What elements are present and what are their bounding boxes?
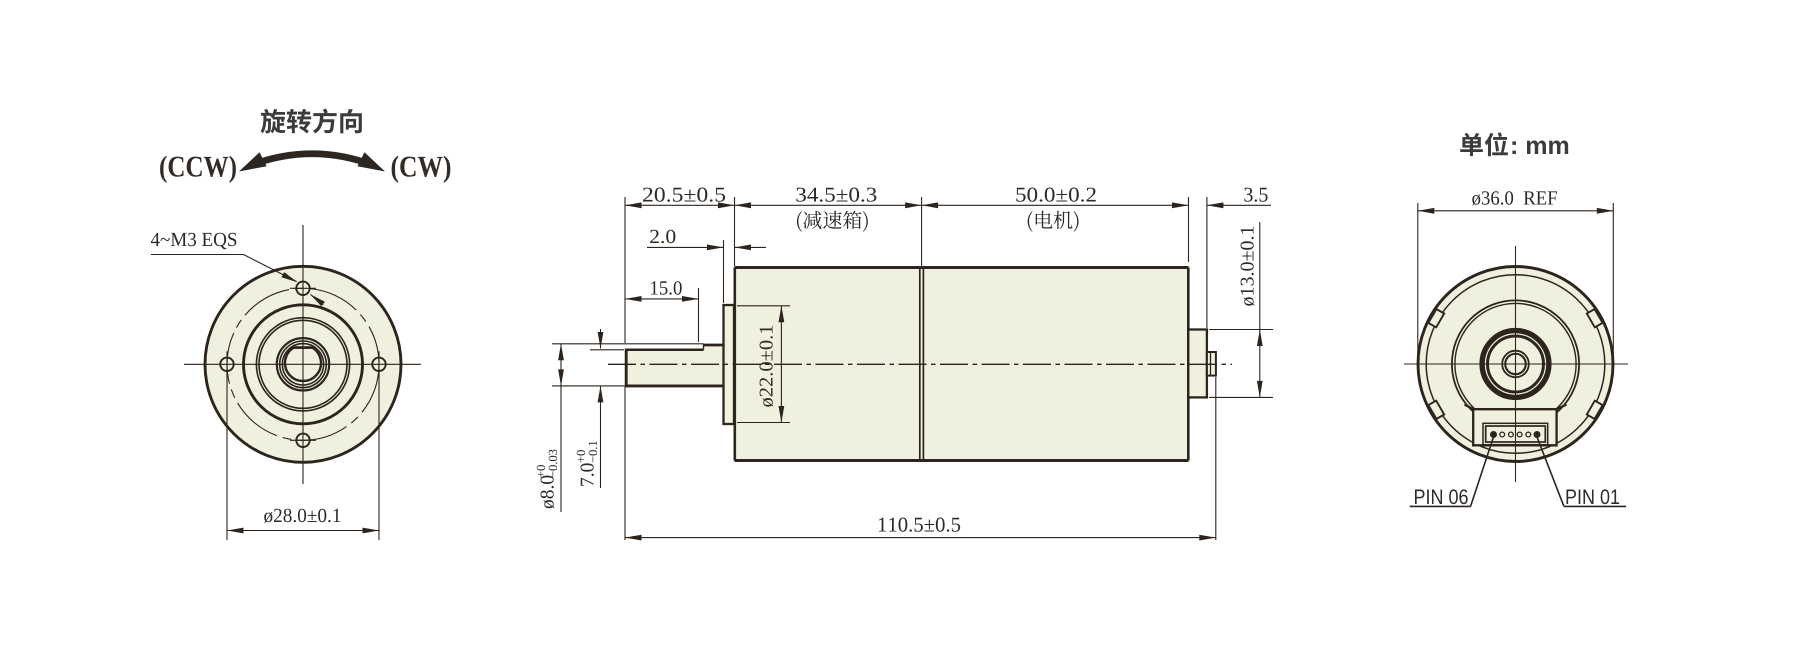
label (CW) <box>392 156 451 183</box>
front boss plate <box>724 305 735 424</box>
dim ø28 label <box>264 509 340 523</box>
shaft bearing ring 2 <box>280 341 327 388</box>
gearbox/motor split lines <box>919 268 921 461</box>
shaft bearing ring 1 <box>277 338 329 390</box>
dim 110.5 line <box>625 537 1216 539</box>
header 单位: mm <box>1460 132 1508 156</box>
curved double arrow CCW/CW <box>250 154 374 166</box>
dim 110.5 right extension <box>1215 377 1217 540</box>
title 旋转方向 (rotation direction) <box>261 109 362 134</box>
leader line to screw hole <box>151 254 244 256</box>
connector shroud inner rect <box>1486 426 1546 442</box>
shaft bearing ring 3 <box>282 344 323 385</box>
dim ø8 label (rotated, with tolerance) <box>537 450 557 509</box>
extension line gearbox/motor split <box>921 197 923 266</box>
label PIN 06 <box>1415 489 1468 504</box>
crimp tab at 330 deg <box>1587 401 1603 419</box>
connector pin <box>1526 432 1531 437</box>
dim 110.5 label <box>879 518 960 532</box>
shaft top silhouette + ø8 top extension line <box>552 343 704 345</box>
bolt circle centerline arc <box>227 288 379 440</box>
shaft D-flat edge line <box>625 349 703 352</box>
leader line PIN 06 <box>1471 438 1494 507</box>
middle view centerline <box>608 363 1232 365</box>
bearing ring small <box>1504 352 1527 375</box>
extension line body front (x=734.5) <box>734 197 736 266</box>
dim 15.0 label <box>651 281 682 295</box>
connector pin 6 (filled) <box>1491 432 1496 437</box>
dim ø13 line <box>1259 222 1261 397</box>
connector shroud outer rect <box>1483 423 1548 444</box>
dim ø22 line <box>780 306 782 423</box>
dim 2.0 extension line <box>723 240 725 303</box>
dim ø36 label <box>1472 191 1557 205</box>
motor housing circle outer <box>1452 300 1579 427</box>
dim 2.0 line and arrows <box>647 246 724 248</box>
connector pin <box>1509 432 1514 437</box>
rear rim inner circle <box>1426 275 1605 454</box>
left view horizontal centerline <box>184 363 421 365</box>
dim 3.5 arrows <box>1207 204 1271 206</box>
dim ø13 extension lines <box>1209 329 1273 331</box>
dim ø13 label (rotated) <box>1241 227 1255 306</box>
shaft D-flat edge <box>294 346 313 349</box>
dim ø8 line <box>560 344 562 512</box>
bearing ring outer <box>1484 333 1547 396</box>
dim 50.0 line <box>922 204 1189 206</box>
screw hole bottom crosshair <box>290 439 316 441</box>
crimp tab at 210 deg <box>1428 401 1444 419</box>
dim 15.0 extension line (flat end) <box>698 288 700 342</box>
extension line body rear <box>1188 197 1190 262</box>
boss ring outer <box>256 318 349 411</box>
shaft end cap <box>625 349 628 388</box>
dim ø28 left extension line <box>226 374 228 540</box>
dim 34.5 label <box>796 188 876 202</box>
dim 7.0 line <box>600 329 602 349</box>
rear boss <box>1188 330 1207 398</box>
dim 20.5 line <box>625 204 735 206</box>
right view: motor rear disc <box>1418 267 1613 462</box>
dim 7.0 flat extension <box>590 349 624 351</box>
dim ø36 line <box>1418 210 1614 212</box>
dim 3.5 label <box>1244 188 1267 202</box>
boss ring inner <box>259 320 347 408</box>
dim 7.0 label (rotated, with tolerance) <box>577 441 597 486</box>
M3 screw hole bottom <box>296 434 309 447</box>
shaft bottom edge + ø8 bottom extension <box>552 385 625 387</box>
screw hole right crosshair <box>378 351 380 377</box>
connector pin <box>1500 432 1505 437</box>
extension line rear boss face <box>1206 197 1208 328</box>
M3 screw hole top <box>296 282 309 295</box>
left view: motor front flange disc <box>205 266 401 462</box>
label (CCW) <box>160 156 236 183</box>
screw hole left crosshair <box>226 351 228 377</box>
connector pin 1 (filled) <box>1534 432 1539 437</box>
connector housing <box>1465 405 1567 446</box>
second leader arrow at bolt arc <box>311 295 324 305</box>
extension line shaft tip (x=625) <box>624 197 626 343</box>
leader line PIN 01 <box>1537 438 1564 507</box>
left view vertical centerline <box>302 225 304 484</box>
motor housing circle inner <box>1455 303 1576 424</box>
output shaft side profile fill <box>626 345 724 386</box>
output shaft circle with D-flat <box>285 348 321 381</box>
crimp tab at 150 deg <box>1428 309 1444 327</box>
right view vertical centerline <box>1515 246 1517 482</box>
M3 screw hole left <box>220 358 233 371</box>
label PIN 01 <box>1566 489 1619 504</box>
gearbox front ring <box>244 305 363 424</box>
screw hole top crosshair <box>290 287 316 289</box>
dim ø22 extension lines <box>737 305 790 307</box>
rear shaft nub <box>1207 352 1216 376</box>
right view horizontal centerline <box>1404 363 1628 365</box>
dim 50.0 label <box>1016 188 1095 202</box>
dim 15.0 line <box>625 298 699 300</box>
gearbox label (减速箱) <box>797 211 868 232</box>
M3 screw hole right <box>372 358 385 371</box>
dim ø28 right extension line <box>378 374 380 540</box>
dim ø28 dimension line <box>227 530 379 532</box>
dim 20.5 label <box>643 188 725 202</box>
label 4~M3 EQS <box>151 233 236 249</box>
dim 2.0 label <box>650 230 675 244</box>
dim 34.5 line <box>735 204 922 206</box>
dim ø22 label (rotated) <box>760 326 774 407</box>
shaft collar top edge <box>704 344 724 347</box>
connector pin <box>1517 432 1522 437</box>
crimp tab at 30 deg <box>1587 309 1603 327</box>
motor/gearbox body <box>735 268 1189 461</box>
dim ø36 extension lines <box>1417 203 1419 371</box>
motor label (电机) <box>1028 211 1079 232</box>
